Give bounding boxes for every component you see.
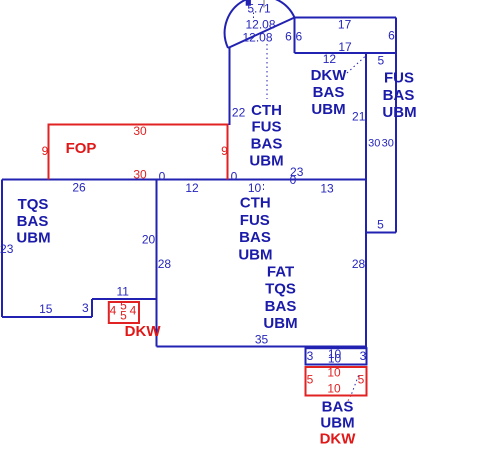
step wall horizontal [92, 298, 158, 300]
svg-text:0: 0 [231, 170, 238, 184]
svg-text:12: 12 [185, 181, 199, 195]
svg-text:FOP: FOP [66, 140, 97, 157]
svg-text:5: 5 [377, 218, 384, 232]
main room bottom wall [157, 346, 368, 348]
svg-text:FUS: FUS [252, 119, 282, 136]
dotted tick after 10 [263, 184, 265, 193]
svg-text:CTH: CTH [240, 195, 271, 212]
svg-text:CTH: CTH [251, 102, 282, 119]
svg-text:28: 28 [158, 257, 172, 271]
svg-text:5: 5 [307, 373, 314, 387]
svg-text:FUS: FUS [240, 212, 270, 229]
svg-text:23: 23 [0, 242, 14, 256]
dotted leader BAS text to red box (red part) [346, 396, 352, 406]
FUS column bottom wall [366, 232, 396, 234]
svg-text:5: 5 [377, 54, 384, 68]
svg-text:10: 10 [248, 181, 262, 195]
svg-text:BAS: BAS [322, 399, 354, 416]
svg-text:DKW: DKW [311, 67, 348, 84]
dotted leader BAS text to red box (blue part) [351, 376, 359, 396]
svg-text:35: 35 [255, 333, 269, 347]
svg-text:30: 30 [382, 137, 394, 149]
svg-text:5.71: 5.71 [247, 2, 271, 16]
svg-text:10: 10 [327, 382, 341, 396]
svg-text:21: 21 [352, 110, 366, 124]
svg-text:5: 5 [358, 373, 365, 387]
svg-text:BAS: BAS [251, 136, 283, 153]
svg-text:17: 17 [338, 18, 352, 32]
svg-text:TQS: TQS [265, 281, 296, 298]
svg-text:28: 28 [352, 257, 366, 271]
west outer wall [1, 180, 3, 318]
svg-text:6: 6 [295, 29, 302, 43]
svg-text:5: 5 [120, 309, 127, 323]
svg-text:4: 4 [110, 304, 117, 318]
svg-text:TQS: TQS [18, 196, 49, 213]
long east wall [365, 53, 367, 347]
wall west of CTH room (upper) [229, 47, 231, 125]
dotted leader below 5.71 [253, 13, 255, 20]
svg-text:11: 11 [116, 285, 129, 299]
marker square at top [246, 0, 251, 6]
svg-text:15: 15 [39, 302, 53, 316]
top-right box bottom wall [295, 52, 397, 54]
svg-text:12: 12 [323, 52, 337, 66]
svg-text:22: 22 [232, 106, 246, 120]
svg-text:3: 3 [307, 349, 314, 363]
svg-text:30: 30 [133, 168, 147, 182]
svg-text:4: 4 [130, 304, 137, 318]
svg-text:BAS: BAS [265, 298, 297, 315]
svg-text:UBM: UBM [249, 153, 283, 170]
svg-text:30: 30 [368, 137, 380, 149]
svg-text:12.08: 12.08 [245, 17, 275, 31]
svg-text:DKW: DKW [320, 431, 357, 448]
svg-text:UBM: UBM [311, 101, 345, 118]
svg-text:BAS: BAS [313, 84, 345, 101]
svg-text:UBM: UBM [382, 104, 416, 121]
east outer wall of FUS column [395, 18, 397, 233]
svg-text:FAT: FAT [267, 264, 294, 281]
top-right box walls [295, 18, 397, 54]
svg-text:FUS: FUS [384, 70, 414, 87]
svg-text:20: 20 [142, 233, 156, 247]
svg-text:12.08: 12.08 [242, 31, 272, 45]
svg-text:10: 10 [327, 366, 341, 380]
arc bay top (curved wall) [225, 0, 295, 48]
svg-text:UBM: UBM [16, 229, 50, 246]
red box bottom-right [306, 367, 367, 396]
svg-text:13: 13 [320, 182, 334, 196]
svg-text:BAS: BAS [17, 213, 49, 230]
svg-text:UBM: UBM [263, 315, 297, 332]
svg-text:UBM: UBM [320, 415, 354, 432]
FOP balcony red walls [49, 125, 228, 180]
svg-text:26: 26 [72, 181, 86, 195]
svg-text:BAS: BAS [383, 87, 415, 104]
svg-text:17: 17 [338, 40, 352, 54]
svg-text:10: 10 [328, 352, 342, 366]
gray tick top [263, 0, 265, 8]
main horizontal wall [2, 179, 366, 181]
svg-text:BAS: BAS [239, 229, 271, 246]
stair box blue bottom-right [306, 348, 367, 364]
svg-text:6: 6 [285, 29, 292, 43]
main room west wall [156, 180, 158, 347]
svg-text:3: 3 [360, 349, 367, 363]
svg-text:0: 0 [159, 170, 166, 184]
svg-text:9: 9 [42, 144, 49, 158]
svg-text:30: 30 [133, 124, 147, 138]
svg-text:9: 9 [221, 144, 228, 158]
dotted leader into CTH room [266, 44, 268, 99]
svg-text:UBM: UBM [238, 246, 272, 263]
dotted leader DKW to corner [347, 57, 365, 74]
DKW small red box left [109, 302, 139, 323]
TQS room bottom wall [2, 316, 92, 318]
chord wall across bay [228, 18, 295, 49]
step wall vertical [91, 299, 93, 317]
svg-text:0: 0 [290, 173, 297, 187]
svg-text:DKW: DKW [125, 323, 162, 340]
svg-text:6: 6 [388, 29, 395, 43]
svg-text:3: 3 [82, 301, 89, 315]
